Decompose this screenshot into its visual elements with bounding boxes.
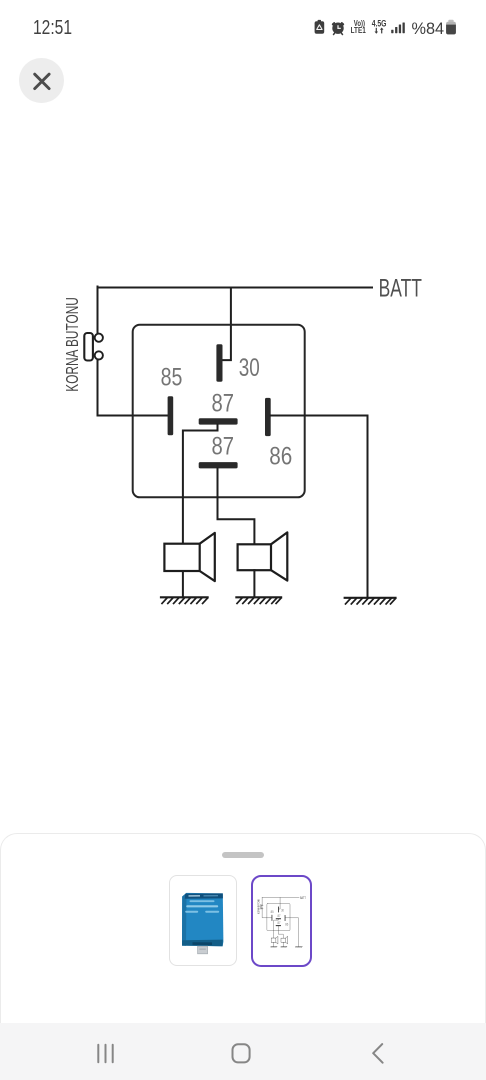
wire horn H2 to ground [253, 570, 255, 597]
horn H2 (right speaker) [238, 532, 288, 580]
bottom sheet [0, 833, 486, 1080]
navigation bar [0, 1023, 486, 1080]
main circuit schematic [0, 250, 486, 615]
back button [373, 1044, 382, 1063]
close button [19, 58, 64, 103]
battery icon [446, 20, 456, 35]
data arrows [375, 28, 384, 34]
thumbnail card 2 (schematic, selected) [251, 875, 312, 967]
drag handle [222, 852, 264, 858]
thumbnail card 1 (relay photo) [169, 875, 237, 966]
wire left drop to horn button [97, 287, 99, 334]
wire BATT top horizontal [98, 287, 373, 289]
wire horn H1 to ground [182, 571, 184, 597]
wire pin 87 lower to right horn [218, 468, 255, 544]
alarm clock icon [332, 23, 343, 35]
svg-text:LTE1: LTE1 [351, 25, 366, 35]
signal bars [391, 23, 405, 34]
status bar time [0, 0, 120, 45]
pin 87 lower [199, 462, 238, 468]
mini schematic thumbnail [257, 896, 306, 948]
svg-text:87: 87 [212, 389, 235, 417]
svg-text:12:51: 12:51 [33, 16, 72, 39]
wire pin 87 upper to left horn [183, 425, 218, 544]
ground for H1 [161, 597, 208, 603]
recents button [98, 1044, 112, 1062]
svg-text:%84: %84 [412, 19, 445, 38]
svg-text:85: 85 [161, 364, 183, 392]
wire pin 86 to right ground [271, 416, 368, 598]
relay product photo [182, 893, 223, 954]
pin 87 upper [199, 418, 238, 424]
horn H1 (left speaker) [164, 533, 214, 581]
pin 86 [265, 398, 271, 436]
VoLTE text [351, 18, 366, 35]
wire from BATT line down to pin 30 [223, 288, 231, 361]
svg-text:87: 87 [212, 433, 235, 461]
pin 85 [168, 396, 174, 435]
home button [233, 1044, 250, 1062]
svg-text:KORNA BUTONU: KORNA BUTONU [62, 297, 82, 392]
relay body outline [133, 325, 305, 498]
wire button to pin 85 [98, 360, 168, 416]
ground right side [345, 598, 396, 604]
pin 30 [216, 344, 222, 381]
svg-text:4.5G: 4.5G [372, 17, 387, 28]
svg-text:BATT: BATT [379, 275, 422, 303]
status bar icons [300, 14, 460, 40]
battery saver icon [315, 20, 325, 34]
horn button switch S1 [84, 333, 103, 361]
svg-text:30: 30 [239, 354, 260, 382]
4.5G and arrows [372, 17, 387, 28]
ground for H2 [236, 597, 281, 603]
svg-text:86: 86 [269, 443, 292, 471]
